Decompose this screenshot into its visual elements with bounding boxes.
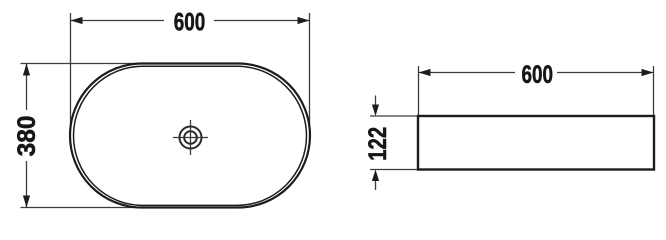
svg-text:600: 600: [522, 61, 554, 89]
svg-text:122: 122: [364, 127, 392, 161]
svg-text:380: 380: [13, 115, 41, 156]
svg-text:600: 600: [174, 9, 206, 37]
